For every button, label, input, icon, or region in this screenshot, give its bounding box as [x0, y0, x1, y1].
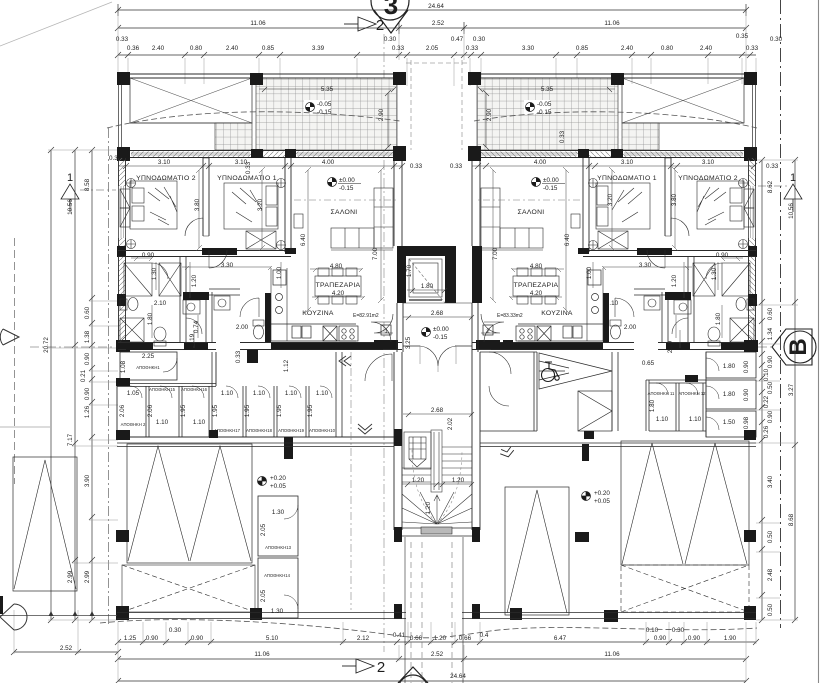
south bedroom wall [118, 248, 296, 257]
svg-text:11.06: 11.06 [250, 20, 266, 27]
svg-text:3: 3 [384, 0, 398, 20]
svg-text:1.08: 1.08 [120, 360, 127, 373]
svg-text:-0.15: -0.15 [317, 109, 332, 116]
elevator car [409, 259, 445, 303]
svg-text:0.30: 0.30 [384, 36, 397, 43]
svg-text:ΑΠΟΘΗΚΗ16: ΑΠΟΘΗΚΗ16 [181, 387, 208, 392]
svg-text:1.95: 1.95 [307, 404, 314, 417]
margin line left [0, 426, 50, 428]
svg-text:10.56: 10.56 [67, 199, 74, 215]
svg-text:-0.05: -0.05 [537, 101, 552, 108]
storage doors arcs [130, 386, 332, 398]
svg-text:3.10: 3.10 [621, 159, 634, 166]
section line 1-1 margin dashes [80, 186, 790, 190]
edge black mark bottom left [0, 596, 3, 614]
wavy dashed eave line top [107, 112, 757, 128]
svg-text:24.64: 24.64 [450, 673, 466, 680]
svg-text:E=82.91m2: E=82.91m2 [353, 313, 379, 319]
balcony parapet top wall [118, 74, 406, 150]
bottom dim labels [60, 627, 737, 680]
svg-text:-0.05: -0.05 [317, 101, 332, 108]
svg-text:6.40: 6.40 [564, 233, 571, 246]
left dashed X area [122, 565, 255, 612]
left main parking triangles [127, 444, 252, 563]
svg-text:1.10: 1.10 [156, 419, 169, 426]
west outer wall [119, 158, 126, 352]
svg-text:ΥΠΝΟΔΩΜΑΤΙΟ 2: ΥΠΝΟΔΩΜΑΤΙΟ 2 [136, 175, 196, 182]
svg-text:0.10: 0.10 [646, 627, 659, 634]
chevron marks corridor [339, 356, 372, 434]
svg-text:1.05: 1.05 [127, 390, 140, 397]
svg-text:2: 2 [486, 328, 490, 335]
svg-text:0.80: 0.80 [190, 45, 203, 52]
svg-text:ΑΠΟΘΗΚΗ13: ΑΠΟΘΗΚΗ13 [265, 545, 292, 550]
svg-text:ΑΠΟΘΗΚΗ 2: ΑΠΟΘΗΚΗ 2 [121, 422, 146, 427]
black columns storage [116, 350, 402, 459]
svg-text:0.90: 0.90 [654, 635, 667, 642]
svg-text:1.80: 1.80 [147, 312, 154, 325]
svg-text:0.90: 0.90 [688, 635, 701, 642]
lobby level marker [422, 328, 431, 337]
svg-text:3.90: 3.90 [84, 474, 91, 487]
folded shape [578, 391, 612, 431]
projection dashed lines center towers [406, 60, 470, 150]
elevator shaft walls [397, 246, 482, 303]
svg-text:2.40: 2.40 [621, 45, 634, 52]
svg-text:2.90: 2.90 [378, 108, 385, 121]
svg-text:2.12: 2.12 [357, 635, 370, 642]
pentagon marker left edge [0, 604, 27, 630]
top dimension line small segments [115, 52, 756, 58]
svg-text:3.39: 3.39 [312, 45, 325, 52]
svg-text:0.50: 0.50 [767, 530, 774, 543]
svg-text:10.56: 10.56 [788, 203, 795, 219]
svg-text:ΑΠΟΘΗΚΗ 11: ΑΠΟΘΗΚΗ 11 [648, 391, 675, 396]
top dimension line 11.06 / 2.52 / 11.06 [115, 22, 749, 34]
svg-text:1.80: 1.80 [649, 399, 656, 412]
level marker ground right [582, 492, 591, 501]
svg-text:2: 2 [377, 659, 385, 676]
section marker 2 top triangle [344, 17, 376, 31]
svg-text:0.90: 0.90 [84, 387, 91, 400]
svg-text:0.85: 0.85 [576, 45, 589, 52]
svg-text:3.30: 3.30 [221, 262, 234, 269]
svg-text:2.00: 2.00 [624, 324, 637, 331]
boundary dash-dot right [780, 0, 782, 628]
svg-text:2.25: 2.25 [142, 353, 155, 360]
svg-text:2.40: 2.40 [226, 45, 239, 52]
corridor wardrobes [124, 263, 181, 296]
interior dim line under north wall left [118, 163, 757, 169]
rear hall walls [480, 352, 537, 431]
svg-text:5.35: 5.35 [541, 86, 554, 93]
svg-text:2.52: 2.52 [432, 20, 445, 27]
svg-text:1.25: 1.25 [124, 635, 137, 642]
svg-text:1.30: 1.30 [711, 267, 718, 280]
svg-text:3.27: 3.27 [788, 383, 795, 396]
stair hall walls [394, 352, 480, 530]
svg-text:24.64: 24.64 [428, 3, 444, 10]
svg-text:1.30: 1.30 [271, 608, 284, 615]
section line B-B dash [30, 346, 772, 348]
tiled terrace [256, 78, 397, 150]
svg-text:1.95: 1.95 [180, 404, 187, 417]
parking north boundary [117, 443, 756, 447]
room and dim labels left apartment [136, 86, 385, 346]
svg-text:4.80: 4.80 [330, 263, 343, 270]
svg-text:2.48: 2.48 [767, 568, 774, 581]
svg-text:E=83.33m2: E=83.33m2 [497, 313, 523, 319]
tv unit saloni [294, 214, 303, 228]
core dims [402, 288, 474, 487]
storage labels left [119, 350, 336, 615]
svg-text:1.38: 1.38 [84, 330, 91, 343]
wall bedroom1 | saloni [285, 158, 291, 252]
left horizontal extension lines [48, 150, 118, 620]
section marker 1 left [61, 184, 79, 212]
right horizontal extension lines [756, 160, 798, 620]
svg-text:11.06: 11.06 [604, 20, 620, 27]
central core [371, 246, 504, 683]
svg-text:ΑΠΟΘΗΚΗ14: ΑΠΟΘΗΚΗ14 [264, 573, 291, 578]
svg-text:ΣΑΛΟΝΙ: ΣΑΛΟΝΙ [517, 209, 544, 216]
wardrobe bedroom2 [120, 179, 136, 249]
svg-text:1.80: 1.80 [723, 363, 736, 370]
svg-text:0.22: 0.22 [763, 395, 770, 408]
svg-text:2.52: 2.52 [60, 645, 73, 652]
svg-text:1.70: 1.70 [406, 264, 413, 277]
svg-text:1.50: 1.50 [723, 419, 736, 426]
wavy dashed line bottom [100, 620, 757, 638]
right dim chain 8.62 etc [759, 157, 765, 623]
svg-text:0.35: 0.35 [736, 33, 749, 40]
svg-text:0.26: 0.26 [763, 425, 770, 438]
svg-text:3.30: 3.30 [522, 45, 535, 52]
svg-text:0.66: 0.66 [459, 635, 472, 642]
svg-text:11.06: 11.06 [254, 651, 270, 658]
svg-text:ΑΠΟΘΗΚΗ18: ΑΠΟΘΗΚΗ18 [246, 428, 273, 433]
black columns right block [503, 340, 756, 461]
svg-text:0.33: 0.33 [766, 163, 779, 170]
section marker B right [772, 329, 816, 365]
right dashed X area [621, 565, 749, 612]
svg-text:0.10: 0.10 [763, 368, 770, 381]
svg-text:0.60: 0.60 [767, 307, 774, 320]
svg-text:4.20: 4.20 [530, 290, 543, 297]
section marker 3 bottom [398, 667, 428, 683]
svg-text:±0.00: ±0.00 [339, 177, 355, 184]
svg-text:0.85: 0.85 [262, 45, 275, 52]
top dim labels [116, 3, 783, 170]
svg-text:7.00: 7.00 [372, 247, 379, 260]
section marker 1 right [784, 184, 802, 212]
interior dim lines [131, 167, 384, 348]
scan fold diagonal top-left [0, 2, 112, 46]
svg-text:1.10: 1.10 [689, 416, 702, 423]
svg-text:-0.15: -0.15 [537, 109, 552, 116]
parking columns [116, 368, 756, 622]
bath fixtures left [120, 298, 166, 347]
border line right margin [818, 0, 820, 683]
svg-text:1.10: 1.10 [221, 390, 234, 397]
sofa saloni L-shape [331, 188, 393, 250]
svg-text:1: 1 [384, 328, 388, 335]
svg-text:ΚΟΥΖΙΝΑ: ΚΟΥΖΙΝΑ [541, 310, 573, 317]
svg-text:0.30: 0.30 [770, 36, 783, 43]
svg-text:1.80: 1.80 [421, 283, 434, 290]
svg-text:0.50: 0.50 [767, 603, 774, 616]
svg-text:0.33: 0.33 [466, 45, 479, 52]
svg-text:-0.15: -0.15 [543, 185, 558, 192]
svg-text:B: B [785, 338, 812, 355]
svg-text:0.65: 0.65 [642, 360, 655, 367]
right parking triangles [621, 441, 749, 565]
svg-text:0.33: 0.33 [559, 130, 566, 143]
svg-text:0.90: 0.90 [191, 635, 204, 642]
stair equipment box [404, 432, 431, 469]
storage partitions [146, 352, 342, 437]
storage room A1 [120, 352, 177, 380]
svg-text:1.20: 1.20 [671, 274, 678, 287]
right dim labels [763, 163, 795, 616]
svg-text:3.30: 3.30 [639, 262, 652, 269]
svg-text:ΥΠΝΟΔΩΜΑΤΙΟ 2: ΥΠΝΟΔΩΜΑΤΙΟ 2 [678, 175, 738, 182]
svg-text:ΤΡΑΠΕΖΑΡΙΑ: ΤΡΑΠΕΖΑΡΙΑ [514, 282, 559, 289]
door to apartment 1 [371, 322, 391, 342]
svg-text:±0.00: ±0.00 [543, 177, 559, 184]
south wall bath zone [118, 343, 216, 351]
svg-text:4.00: 4.00 [322, 159, 335, 166]
svg-text:2.05: 2.05 [260, 523, 267, 536]
wc middle fixtures [183, 296, 264, 339]
svg-text:1.34: 1.34 [767, 327, 774, 340]
svg-text:ΑΠΟΘΗΚΗ15: ΑΠΟΘΗΚΗ15 [149, 387, 176, 392]
svg-text:2.19: 2.19 [667, 340, 674, 353]
bed bedroom2 [130, 181, 177, 229]
storage labels right [642, 340, 750, 429]
svg-text:-0.15: -0.15 [339, 185, 354, 192]
stair treads [402, 430, 472, 524]
svg-text:1.10: 1.10 [193, 419, 206, 426]
svg-text:±0.00: ±0.00 [433, 326, 449, 333]
svg-text:4.20: 4.20 [332, 290, 345, 297]
level marker ground left [258, 477, 267, 486]
svg-text:0.90: 0.90 [84, 352, 91, 365]
terrace level marker right [524, 100, 550, 114]
columns north wall [117, 146, 406, 161]
left dim labels rotated [43, 155, 122, 583]
svg-text:5.35: 5.35 [321, 86, 334, 93]
svg-text:0.30: 0.30 [672, 627, 685, 634]
ground floor left block [116, 350, 756, 610]
left dim chain 8.58 etc [89, 147, 95, 623]
svg-text:2.99: 2.99 [84, 570, 91, 583]
svg-text:2.40: 2.40 [152, 45, 165, 52]
section line 2-2 vertical dash [383, 34, 385, 652]
svg-text:7.17: 7.17 [67, 433, 74, 446]
svg-text:0.90: 0.90 [743, 388, 750, 401]
svg-text:6.40: 6.40 [300, 233, 307, 246]
lobby floor edge [403, 302, 472, 304]
svg-text:ΤΡΑΠΕΖΑΡΙΑ: ΤΡΑΠΕΖΑΡΙΑ [316, 282, 361, 289]
disabled parking triangle [539, 353, 612, 389]
center-right parking [505, 487, 569, 615]
storage box 14 [258, 558, 298, 618]
svg-text:3.80: 3.80 [671, 193, 678, 206]
svg-text:1.80: 1.80 [723, 391, 736, 398]
section marker 2 bottom triangle [342, 659, 374, 673]
left apartment + balcony geometry (mirrored for right) [116, 72, 406, 352]
svg-text:1.20: 1.20 [425, 501, 432, 514]
svg-text:2.05: 2.05 [260, 589, 267, 602]
svg-text:2.06: 2.06 [147, 404, 154, 417]
stair walk line arrow [412, 450, 462, 524]
svg-text:0.80: 0.80 [661, 45, 674, 52]
svg-text:1.95: 1.95 [212, 404, 219, 417]
wall bedroom2 | bedroom1 [203, 158, 209, 236]
svg-text:0.66: 0.66 [410, 635, 423, 642]
door number boxes [381, 325, 493, 335]
saloni dashed line [294, 199, 399, 201]
svg-text:2.68: 2.68 [431, 407, 444, 414]
svg-text:0.33: 0.33 [245, 161, 252, 174]
svg-text:1.95: 1.95 [244, 404, 251, 417]
svg-text:+0.05: +0.05 [594, 498, 610, 505]
bottom dimension rows [11, 639, 759, 683]
svg-text:2: 2 [376, 17, 384, 34]
svg-text:0.50: 0.50 [767, 381, 774, 394]
svg-text:ΣΑΛΟΝΙ: ΣΑΛΟΝΙ [330, 209, 357, 216]
svg-text:ΑΠΟΘΗΚΗ19: ΑΠΟΘΗΚΗ19 [278, 428, 305, 433]
svg-text:0.98: 0.98 [743, 416, 750, 429]
svg-text:0.33: 0.33 [116, 36, 129, 43]
storage rooms 11 12 [649, 352, 706, 437]
svg-text:0.74: 0.74 [193, 320, 200, 333]
door bedroom1 [209, 250, 227, 268]
svg-text:1: 1 [67, 172, 73, 184]
chevron mark [499, 446, 515, 458]
building south wall [117, 613, 756, 619]
left outside parking strip [13, 457, 77, 591]
door to apartment 2 [484, 322, 504, 342]
svg-text:1.00: 1.00 [276, 266, 283, 279]
svg-text:1.10: 1.10 [316, 390, 329, 397]
dining table [315, 268, 361, 304]
svg-text:2.40: 2.40 [700, 45, 713, 52]
ground line bottom left [0, 611, 117, 616]
svg-text:-0.15: -0.15 [433, 334, 448, 341]
svg-text:+0.20: +0.20 [270, 475, 286, 482]
svg-text:0.90: 0.90 [767, 355, 774, 368]
svg-text:ΑΠΟΘΗΚΗ17: ΑΠΟΘΗΚΗ17 [214, 428, 241, 433]
boundary dash left far [14, 238, 16, 484]
saloni level marker right [532, 178, 566, 187]
top dimension line 24.64 [115, 4, 749, 16]
svg-text:3.10: 3.10 [158, 159, 171, 166]
svg-text:2.06: 2.06 [119, 404, 126, 417]
wheelchair symbol [542, 362, 560, 382]
parking areas [13, 368, 756, 622]
lobby walls [397, 303, 478, 352]
svg-text:4.80: 4.80 [530, 263, 543, 270]
svg-text:8.62: 8.62 [767, 180, 774, 193]
terrace level marker left [304, 100, 330, 114]
svg-text:6.47: 6.47 [554, 635, 567, 642]
pentagon marker B-B left end [0, 329, 19, 345]
svg-text:+0.20: +0.20 [594, 490, 610, 497]
svg-text:0.33: 0.33 [410, 163, 423, 170]
svg-text:20.72: 20.72 [43, 337, 50, 353]
svg-text:0.90: 0.90 [767, 410, 774, 423]
svg-text:2.68: 2.68 [431, 310, 444, 317]
svg-text:1.00: 1.00 [586, 266, 593, 279]
section marker 3 top [371, 0, 409, 33]
svg-text:ΥΠΝΟΔΩΜΑΤΙΟ 1: ΥΠΝΟΔΩΜΑΤΙΟ 1 [597, 175, 657, 182]
svg-text:1.12: 1.12 [283, 359, 290, 372]
corridor wall [117, 384, 216, 387]
svg-text:1.95: 1.95 [276, 404, 283, 417]
balcony X terrace [130, 78, 252, 150]
svg-text:0.36: 0.36 [127, 45, 140, 52]
svg-text:2.52: 2.52 [431, 651, 444, 658]
svg-text:1.90: 1.90 [724, 635, 737, 642]
boundary dash-dot left margin [108, 128, 110, 624]
svg-text:8.58: 8.58 [84, 178, 91, 191]
svg-text:1.30: 1.30 [151, 267, 158, 280]
svg-text:0.60: 0.60 [84, 306, 91, 319]
svg-text:0.90: 0.90 [716, 252, 729, 259]
left dim chain 10.56 / 7.17 / 2.99 [72, 147, 78, 623]
svg-text:5.10: 5.10 [266, 635, 279, 642]
svg-text:+0.05: +0.05 [270, 483, 286, 490]
apartment south wall under kitchen [240, 340, 402, 350]
svg-text:1.10: 1.10 [253, 390, 266, 397]
svg-text:ΥΠΝΟΔΩΜΑΤΙΟ 1: ΥΠΝΟΔΩΜΑΤΙΟ 1 [217, 175, 277, 182]
columns balcony top [117, 72, 406, 85]
svg-text:3.25: 3.25 [405, 336, 412, 349]
porch slab [394, 527, 480, 536]
svg-text:0.90: 0.90 [146, 635, 159, 642]
left dim chain 20.72 [48, 147, 54, 623]
svg-text:0.33: 0.33 [235, 350, 242, 363]
door corridor to stair hall [365, 354, 392, 381]
svg-text:1.20: 1.20 [412, 477, 425, 484]
svg-text:2.19: 2.19 [189, 333, 196, 346]
svg-text:3.20: 3.20 [257, 198, 264, 211]
svg-text:0.33: 0.33 [450, 163, 463, 170]
north wall with windows [118, 151, 406, 158]
storage box 13 [258, 496, 298, 556]
svg-text:2.10: 2.10 [606, 300, 619, 307]
svg-text:8.68: 8.68 [788, 513, 795, 526]
door bedroom2 [185, 218, 203, 236]
bottom extension lines [14, 610, 756, 681]
svg-text:1.20: 1.20 [434, 635, 447, 642]
svg-text:ΚΟΥΖΙΝΑ: ΚΟΥΖΙΝΑ [302, 310, 334, 317]
svg-text:3.20: 3.20 [607, 193, 614, 206]
kitchen counter L [271, 268, 358, 341]
apartment entry door [374, 314, 393, 333]
svg-text:1.20: 1.20 [191, 274, 198, 287]
svg-text:1.10: 1.10 [285, 390, 298, 397]
svg-text:2.05: 2.05 [426, 45, 439, 52]
wardrobe bedroom1 [246, 179, 286, 250]
svg-text:1.10: 1.10 [656, 416, 669, 423]
svg-text:0.47: 0.47 [451, 36, 464, 43]
entrance path [405, 537, 463, 683]
svg-text:3.40: 3.40 [767, 475, 774, 488]
svg-text:3.10: 3.10 [702, 159, 715, 166]
